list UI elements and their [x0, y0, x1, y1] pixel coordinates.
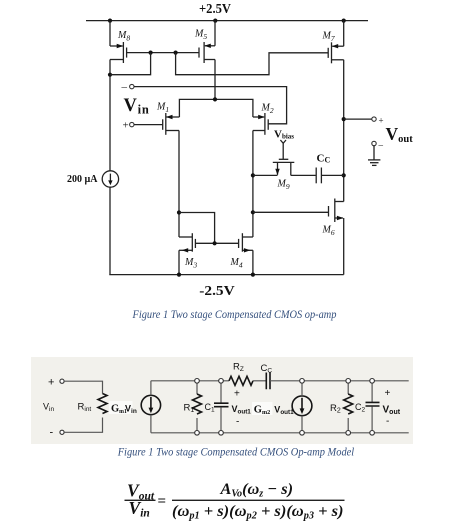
- svg-text:Figure 1 Two stage Compensated: Figure 1 Two stage Compensated CMOS op-a…: [132, 307, 337, 321]
- wire current source to bottom rail: [109, 187, 111, 274]
- svg-text:-2.5V: -2.5V: [199, 284, 234, 299]
- model background: [31, 357, 413, 444]
- svg-text:-: -: [386, 416, 389, 427]
- node circle bottom R2: [346, 431, 351, 436]
- wire Gm2 stubs: [301, 383, 303, 431]
- transistor M5: [194, 29, 215, 64]
- capacitor C2: [355, 381, 380, 433]
- equation Vout over Vin: [125, 481, 156, 520]
- net +2.5V label: [199, 2, 231, 17]
- wire M5 source to rail: [214, 21, 216, 46]
- wire M3 gate tie: [179, 213, 215, 244]
- node junction top rail left: [108, 19, 112, 23]
- label Gm1 Vin: [109, 401, 137, 415]
- ground: [368, 146, 380, 166]
- capacitor Cc: [316, 153, 330, 184]
- svg-text:-: -: [236, 417, 239, 428]
- caption figure 1 op-amp model: [117, 445, 355, 459]
- wire bottom -2.5V rail: [109, 274, 343, 276]
- label vout1 port: [232, 389, 252, 428]
- wire mirror gate bus M8 to M5: [127, 52, 199, 54]
- label vin model: [43, 402, 54, 414]
- resistor R1: [184, 381, 202, 433]
- wire M2 drain column: [252, 131, 254, 238]
- equation numerator: [219, 481, 293, 500]
- svg-text:–: –: [121, 81, 128, 93]
- wire model input bottom: [64, 418, 102, 433]
- wire M3 source to rail: [178, 250, 180, 274]
- wire M5 drain to tail node: [214, 60, 216, 100]
- transistor M4: [230, 233, 253, 269]
- label Vin: [124, 96, 150, 116]
- node junction bottom rail M3: [177, 273, 181, 277]
- svg-text:AVo(ωz − s): AVo(ωz − s): [219, 481, 293, 500]
- node junction Cc tap: [342, 173, 346, 177]
- node circle top Cc: [300, 379, 305, 384]
- wire inverting input: [134, 87, 287, 124]
- node junction M3 diode: [177, 210, 181, 214]
- node circle top C2: [370, 379, 375, 384]
- transistor M2: [253, 103, 274, 135]
- current source 200uA: [67, 171, 119, 187]
- svg-text:=: =: [158, 494, 167, 510]
- wire model top rail right: [304, 380, 409, 382]
- node junction M9 tap: [251, 173, 255, 177]
- terminal Vbias arrow: [280, 140, 286, 159]
- node junction Vout tap: [342, 117, 346, 121]
- wire Vout tap: [344, 118, 372, 120]
- input terminal minus: [121, 81, 135, 93]
- svg-text:+: +: [234, 389, 240, 400]
- resistor Rz: [229, 362, 253, 386]
- wire tail node: [179, 99, 253, 117]
- node circle top R2: [346, 379, 351, 384]
- wire Cc to node: [270, 380, 300, 382]
- wire M6 source to bottom rail: [343, 218, 345, 275]
- transistor M3: [179, 233, 197, 269]
- svg-text:-: -: [50, 427, 54, 439]
- wire left branch upper: [109, 21, 111, 46]
- wire M7 drain column: [343, 60, 345, 202]
- wire M8 drain down to current source: [109, 60, 111, 171]
- equation denominator: [172, 503, 343, 522]
- resistor Rint: [78, 394, 108, 414]
- wire model input top: [64, 381, 102, 393]
- transistor M1: [156, 102, 179, 135]
- node junction top rail M5: [213, 19, 217, 23]
- equation fraction bar: [172, 500, 345, 501]
- wire M3 M4 gate bus: [195, 242, 238, 244]
- model input terminal plus: [48, 377, 64, 389]
- wire M7 source to rail: [343, 21, 345, 47]
- wire M1 drain to M3: [178, 131, 180, 238]
- wire M8 diode tie: [110, 53, 151, 75]
- node circle bottom R1: [195, 431, 200, 436]
- current source Gm1Vin: [141, 395, 160, 414]
- wire noninverting input to M1 gate: [134, 124, 163, 126]
- model input terminal minus: [50, 427, 65, 439]
- label Gm2 Vout1: [252, 402, 294, 416]
- wire Cc to output column: [321, 174, 343, 176]
- transistor M9: [273, 159, 295, 191]
- current source Gm2Vout1: [292, 396, 312, 416]
- wire M7 gate detour: [176, 53, 329, 75]
- svg-text:+: +: [123, 120, 129, 132]
- transistor M6: [322, 199, 344, 238]
- node junction mirror bus B: [174, 51, 178, 55]
- node junction gate bus: [213, 241, 217, 245]
- capacitor Cc model: [261, 363, 273, 389]
- wire M9 left to M2 drain: [253, 174, 278, 176]
- wire M9 right to Cc: [291, 174, 316, 176]
- label Vout: [386, 124, 414, 145]
- input terminal plus: [123, 120, 135, 132]
- resistor R2: [330, 381, 353, 433]
- node circle top C1: [219, 379, 224, 384]
- svg-text:+: +: [379, 116, 384, 126]
- svg-text:+: +: [48, 377, 54, 389]
- node junction mirror bus A: [149, 51, 153, 55]
- equation equals sign: [158, 494, 167, 510]
- wire Gm1 stubs: [150, 381, 152, 433]
- wire M4 source to rail: [252, 250, 254, 274]
- node circle bottom C1: [219, 431, 224, 436]
- svg-text:200 µA: 200 µA: [67, 174, 98, 185]
- output terminal plus: [372, 116, 384, 126]
- wire Rz to Cc: [253, 380, 266, 382]
- svg-text:–: –: [378, 140, 384, 150]
- node circle bottom Gm2: [300, 431, 305, 436]
- svg-text:Figure 1 Two stage Compensated: Figure 1 Two stage Compensated CMOS Op-a…: [117, 445, 355, 459]
- node junction bottom rail M4: [251, 273, 255, 277]
- node junction tail: [213, 97, 217, 101]
- wire top +2.5V rail: [86, 20, 368, 22]
- node junction M6 gate tap: [251, 210, 255, 214]
- node junction top rail M7: [342, 19, 346, 23]
- label Vout model port: [383, 388, 401, 427]
- transistor M8: [110, 30, 130, 63]
- svg-text:+: +: [385, 388, 391, 399]
- capacitor C1: [205, 381, 229, 433]
- caption figure 1 op-amp: [132, 307, 337, 321]
- net -2.5V label: [199, 284, 234, 299]
- wire M6 gate: [253, 211, 329, 213]
- wire model bottom rail: [151, 432, 409, 434]
- svg-text:+2.5V: +2.5V: [199, 2, 231, 17]
- node circle top R1: [195, 379, 200, 384]
- node junction M8 drain gate tie: [108, 73, 112, 77]
- transistor M7: [322, 31, 344, 64]
- node circle bottom C2: [370, 431, 375, 436]
- label Vbias: [274, 128, 294, 140]
- wire model top rail left: [151, 380, 229, 382]
- output terminal minus: [372, 140, 384, 150]
